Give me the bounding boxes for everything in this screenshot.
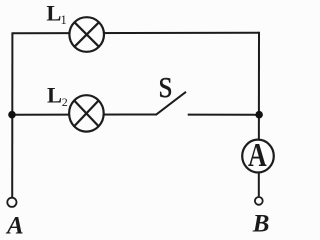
lamp L2 [69,95,104,131]
svg-text:L: L [46,0,61,25]
terminal A (open circle) [7,198,16,207]
junction right (node where switch branch meets right wire) [255,111,263,119]
ammeter A (meter) [242,135,274,173]
wire: right vertical from top corner through junction to ammeter and terminal B [258,32,260,197]
svg-text:B: B [252,211,270,238]
switch S blade [156,92,186,115]
svg-text:A: A [248,135,267,173]
terminal B (open circle) [255,197,263,205]
wire: top rail from left corner through L1 to right corner [12,32,259,35]
wire: left vertical from top-left corner down to terminal A [11,32,13,197]
svg-text:S: S [159,72,173,104]
junction left (node where L2 branch meets left wire) [8,111,16,119]
lamp L1 [69,17,104,52]
svg-text:1: 1 [61,13,67,27]
wire: middle branch right segment from switch contact to right junction [188,114,259,116]
svg-text:L: L [47,83,62,108]
svg-text:A: A [5,212,24,239]
svg-text:2: 2 [62,95,68,109]
wire: middle branch left segment from left junction through L2 to switch pivot [12,114,156,116]
